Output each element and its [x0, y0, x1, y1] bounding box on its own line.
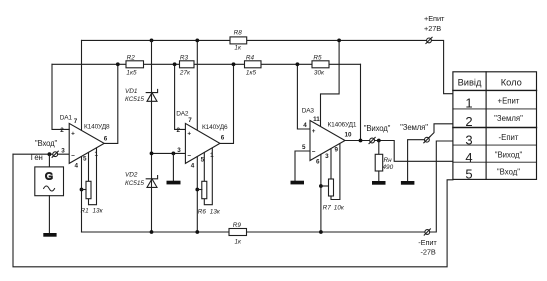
svg-text:К1406УД1: К1406УД1 — [328, 121, 357, 128]
resistor R7 — [329, 179, 334, 196]
svg-text:DA1: DA1 — [60, 115, 73, 122]
node dot R1 wiper — [80, 188, 84, 192]
svg-text:"Земля": "Земля" — [494, 114, 523, 123]
svg-text:"Вход": "Вход" — [497, 167, 520, 176]
svg-text:R7: R7 — [323, 205, 332, 212]
wire R6 wiper stub — [197, 189, 202, 191]
wire DA3 pin9 — [331, 144, 340, 200]
wire DA2 pin7 drop — [196, 40, 198, 130]
terminal "Vyhod" — [369, 137, 375, 143]
svg-text:-Епит: -Епит — [499, 133, 519, 142]
resistor R9 — [229, 229, 247, 236]
wire DA1 pin2 entry — [68, 128, 70, 130]
svg-text:7: 7 — [74, 118, 78, 125]
table pin assignment — [453, 72, 537, 180]
node dot Rn tap — [377, 139, 381, 143]
svg-text:+Епит: +Епит — [424, 14, 445, 23]
ground DA3 pin5 — [291, 181, 305, 185]
resistor R8 — [230, 37, 247, 44]
svg-text:13к: 13к — [210, 209, 221, 216]
svg-text:К140УД6: К140УД6 — [202, 124, 228, 131]
resistor R1 — [86, 181, 91, 198]
svg-text:"Виход": "Виход" — [364, 124, 391, 133]
wire DA3 output — [345, 140, 369, 142]
wire input net — [13, 153, 69, 155]
node dot bottom rail / DA2 pin4 — [195, 230, 199, 234]
zener diode VD2 — [146, 176, 157, 188]
svg-text:КС515: КС515 — [125, 96, 144, 103]
svg-text:10: 10 — [344, 131, 352, 138]
wire R1 wiper stub — [82, 189, 87, 191]
svg-text:R4: R4 — [246, 55, 255, 62]
svg-text:1к5: 1к5 — [126, 69, 137, 76]
wire mid rail segments — [52, 63, 361, 65]
svg-text:13к: 13к — [93, 207, 104, 214]
wire DA3 feedback riser — [360, 64, 362, 140]
svg-text:+: + — [187, 130, 191, 137]
op-amp DA3 — [310, 121, 345, 161]
svg-text:G: G — [45, 171, 53, 182]
wire DA3 pin4 feed — [297, 64, 310, 129]
wire DA1 output riser — [104, 64, 118, 143]
svg-text:VD2: VD2 — [125, 171, 138, 178]
wire DA3 pin5 ground — [295, 151, 310, 181]
svg-text:30к: 30к — [314, 69, 325, 76]
svg-text:6: 6 — [104, 135, 108, 142]
terminal -27V — [424, 229, 430, 235]
svg-text:DA3: DA3 — [302, 107, 315, 114]
wire DA3 pin11 dogleg — [321, 40, 340, 126]
wire DA2 pin1 — [204, 148, 212, 205]
svg-text:-Епит: -Епит — [418, 238, 437, 247]
node dot R6 wiper — [195, 188, 199, 192]
wire DA1 pin4 drop — [81, 157, 83, 232]
svg-text:5: 5 — [302, 144, 306, 151]
svg-text:9: 9 — [335, 147, 339, 154]
node dot bottom rail / zener — [150, 230, 154, 234]
node dot zener junction — [150, 152, 154, 156]
wire DA1 pin2 feed — [52, 64, 69, 129]
zener chain wire — [151, 40, 153, 232]
ground generator — [43, 233, 56, 237]
wire DA3 pin3 — [330, 149, 332, 179]
node dot top rail / zener chain — [150, 39, 154, 43]
svg-text:3: 3 — [465, 132, 472, 147]
svg-text:2: 2 — [177, 127, 181, 134]
svg-text:"Земля": "Земля" — [400, 123, 428, 132]
svg-text:3: 3 — [61, 148, 65, 155]
svg-text:−: − — [312, 149, 316, 156]
wire big loop to table row5 — [13, 154, 453, 267]
terminal "Zemlya" — [424, 137, 430, 143]
node dot bottom rail / DA3 pin6 — [319, 230, 323, 234]
svg-text:1к5: 1к5 — [246, 69, 257, 76]
wire zemlya to table row2 — [429, 124, 453, 138]
wire top +rail from DA1 pin7 corner to +27V terminal — [82, 39, 427, 41]
op-amp DA2 — [185, 123, 220, 163]
svg-text:3: 3 — [177, 147, 181, 154]
wire -Epit to table row3 — [430, 141, 453, 232]
svg-text:2: 2 — [465, 114, 472, 129]
svg-text:VD1: VD1 — [125, 88, 138, 95]
svg-text:5: 5 — [201, 157, 205, 164]
svg-text:"Виход": "Виход" — [495, 150, 523, 159]
svg-text:R1: R1 — [81, 207, 90, 214]
node dot R7 wiper — [319, 184, 323, 188]
svg-text:4: 4 — [191, 163, 195, 170]
svg-text:1: 1 — [95, 151, 99, 158]
svg-text:1к: 1к — [235, 238, 243, 245]
svg-text:"Вход": "Вход" — [35, 139, 58, 148]
svg-text:7: 7 — [188, 117, 192, 124]
wire generator top stem — [48, 154, 50, 167]
svg-text:−: − — [71, 152, 75, 159]
wire DA2 pin5 — [203, 153, 205, 182]
svg-text:К140УД8: К140УД8 — [84, 124, 110, 131]
node dot top rail / DA3 pin11 — [337, 39, 341, 43]
svg-text:КС515: КС515 — [125, 180, 144, 187]
node dot DA2 output riser — [232, 62, 236, 66]
ground zemlya — [401, 181, 415, 185]
wire zemlya to ground — [408, 140, 425, 181]
svg-text:1к: 1к — [234, 44, 242, 51]
wire DA3 pin6 drop — [320, 154, 322, 232]
svg-text:10к: 10к — [334, 205, 345, 212]
svg-text:-27В: -27В — [421, 247, 436, 256]
wire DA1 pin1 — [89, 148, 97, 205]
svg-text:Rн: Rн — [384, 157, 393, 164]
wire DA1 pin7 drop — [81, 40, 83, 130]
wire DA1 pin5 — [88, 153, 90, 182]
node dot mid ground tap — [172, 152, 176, 156]
svg-text:6: 6 — [316, 159, 320, 166]
zener diode VD1 — [146, 89, 157, 101]
svg-text:+27В: +27В — [424, 24, 441, 33]
svg-text:Вивід: Вивід — [458, 77, 482, 87]
ground mid — [167, 181, 181, 185]
svg-text:6: 6 — [221, 134, 225, 141]
svg-text:R6: R6 — [198, 209, 207, 216]
svg-text:+Епит: +Епит — [498, 96, 520, 105]
generator G box — [35, 167, 64, 196]
terminal "Vhod" — [52, 151, 58, 157]
wire output to table row4 — [375, 141, 453, 162]
svg-text:1: 1 — [465, 95, 472, 110]
svg-text:2: 2 — [60, 127, 64, 134]
svg-text:R8: R8 — [234, 29, 243, 36]
svg-text:27к: 27к — [179, 69, 191, 76]
resistor R6 — [202, 181, 207, 198]
ground Rn — [372, 181, 386, 185]
wire mid ground stem — [172, 153, 174, 180]
wire R7 wiper stub — [321, 185, 329, 187]
wire Rn to ground — [378, 171, 380, 181]
node dot output/feedback — [359, 139, 363, 143]
svg-text:+: + — [71, 130, 75, 137]
resistor R5 — [312, 61, 329, 68]
svg-text:Ген: Ген — [31, 153, 43, 162]
node dot R4/R5 junction — [296, 62, 300, 66]
resistor R2 — [126, 61, 144, 68]
svg-text:R3: R3 — [180, 55, 189, 62]
resistor R4 — [245, 61, 262, 68]
svg-text:DA2: DA2 — [176, 110, 189, 117]
wire DA2 pin2 feed — [175, 64, 186, 129]
node dot generator tap — [48, 152, 52, 156]
svg-text:−: − — [187, 152, 191, 159]
wire +Epit to table row1 — [432, 40, 453, 93]
svg-text:R2: R2 — [127, 55, 136, 62]
wire Rn stem — [378, 141, 380, 155]
node dot R3 left — [173, 62, 177, 66]
svg-text:4: 4 — [75, 163, 79, 170]
svg-text:11: 11 — [313, 116, 320, 123]
wire zener junction to DA2 pin3 — [152, 152, 186, 154]
node dot DA1 output riser — [116, 62, 120, 66]
svg-text:Коло: Коло — [501, 77, 522, 87]
svg-text:R5: R5 — [313, 55, 322, 62]
svg-text:+: + — [312, 128, 316, 135]
svg-text:3: 3 — [325, 153, 329, 160]
svg-text:5: 5 — [465, 166, 472, 181]
resistor R3 — [180, 61, 195, 68]
svg-text:4: 4 — [465, 150, 472, 165]
terminal +27V — [426, 37, 432, 43]
wire DA2 pin4 drop — [196, 157, 198, 232]
svg-text:490: 490 — [383, 164, 394, 171]
node dot top rail / DA2 pin7 — [195, 39, 199, 43]
svg-text:R9: R9 — [233, 222, 242, 229]
wire generator bottom stem — [48, 196, 50, 233]
wire bottom -rail — [82, 231, 425, 233]
resistor Rn load — [375, 154, 383, 171]
svg-text:4: 4 — [303, 122, 307, 129]
svg-text:5: 5 — [83, 156, 87, 163]
op-amp DA1 — [69, 123, 104, 163]
wire DA2 output riser — [220, 64, 234, 143]
svg-text:1: 1 — [210, 152, 214, 159]
